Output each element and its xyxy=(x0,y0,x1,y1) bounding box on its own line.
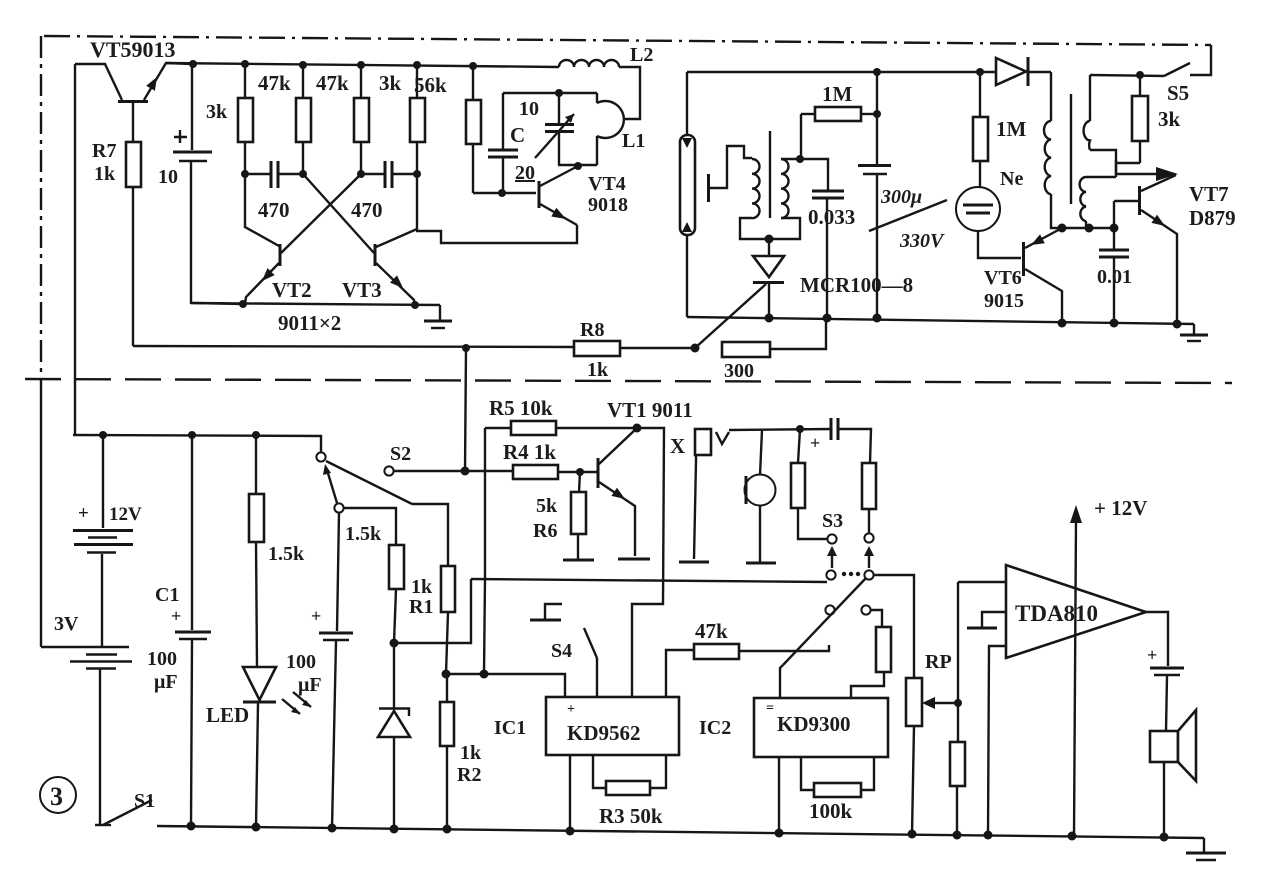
svg-text:R2: R2 xyxy=(457,764,481,786)
svg-text:9011×2: 9011×2 xyxy=(278,311,341,335)
resistor 1.5k (LED) xyxy=(249,435,305,667)
resistor R7 1k xyxy=(92,140,141,346)
microphone xyxy=(745,430,776,562)
svg-text:3k: 3k xyxy=(1158,107,1181,131)
svg-text:3: 3 xyxy=(50,782,63,811)
svg-text:330V: 330V xyxy=(899,230,945,252)
transformer T2 primary xyxy=(1044,72,1062,228)
op-amp TDA810 xyxy=(1006,565,1146,658)
svg-text:47k: 47k xyxy=(695,619,728,643)
svg-text:20: 20 xyxy=(515,162,535,184)
svg-text:RP: RP xyxy=(925,651,952,673)
capacitor 300u 330V xyxy=(858,72,947,318)
svg-text:S2: S2 xyxy=(390,443,411,465)
wire TDA input xyxy=(958,581,1006,583)
resistor R4 1k xyxy=(465,440,597,479)
switch S2 xyxy=(384,443,469,476)
transistor VT5 xyxy=(75,63,193,142)
LED xyxy=(206,667,311,827)
label VT5 9013 xyxy=(90,37,176,62)
ground (TDA pin) xyxy=(967,612,1006,628)
resistor R8 1k xyxy=(574,319,700,381)
transistor VT6 9015 xyxy=(984,228,1062,323)
svg-text:1M: 1M xyxy=(822,82,853,106)
wire secondary top to S5 xyxy=(1090,75,1164,76)
wire IC2 ground pin xyxy=(778,757,780,833)
svg-text:R6: R6 xyxy=(533,520,557,542)
resistor R6 5k xyxy=(533,472,586,559)
svg-text:S5: S5 xyxy=(1167,81,1189,105)
wire bottom rail xyxy=(157,822,1204,842)
transistor VT2 xyxy=(245,174,312,304)
wire VT1 collector to IC1 xyxy=(632,428,664,697)
resistor (S3 right throw) xyxy=(851,610,891,698)
speaker xyxy=(1150,710,1196,837)
svg-text:C1: C1 xyxy=(155,584,179,606)
svg-text:9015: 9015 xyxy=(984,290,1024,312)
wire flash top rail xyxy=(687,68,996,76)
svg-text:47k: 47k xyxy=(258,71,291,95)
resistor R5 10k xyxy=(485,396,637,435)
svg-text:VT2: VT2 xyxy=(272,278,312,302)
resistor (right of mic) xyxy=(838,429,876,533)
svg-text:IC1: IC1 xyxy=(494,717,526,739)
svg-text:+: + xyxy=(78,503,89,524)
svg-text:D879: D879 xyxy=(1189,206,1236,230)
svg-text:1M: 1M xyxy=(996,117,1027,141)
wire bottom section top rail xyxy=(73,64,321,452)
IC1 KD9562 xyxy=(494,697,679,755)
flash tube xyxy=(680,72,695,317)
transistor VT3 xyxy=(342,174,417,305)
svg-text:MCR100—8: MCR100—8 xyxy=(800,273,913,297)
svg-text:10: 10 xyxy=(158,166,178,188)
svg-text:C: C xyxy=(510,123,525,147)
node dots top rail xyxy=(189,60,477,70)
separator dashed line xyxy=(25,379,1232,383)
resistor 56k xyxy=(414,66,481,193)
svg-text:+: + xyxy=(171,606,181,626)
wire left loop xyxy=(74,64,76,435)
svg-text:3V: 3V xyxy=(54,613,79,635)
resistor 47k (first) xyxy=(258,65,311,174)
label circled 3 xyxy=(40,777,76,813)
svg-text:R4 1k: R4 1k xyxy=(503,440,556,464)
svg-text:56k: 56k xyxy=(414,73,447,97)
wire top rail xyxy=(166,63,559,67)
svg-text:R7: R7 xyxy=(92,140,116,162)
capacitor 100uF (second) xyxy=(286,513,353,828)
svg-text:R8: R8 xyxy=(580,319,604,341)
transistor VT7 D879 xyxy=(1114,160,1236,324)
battery 3V xyxy=(41,613,132,824)
svg-text:TDA810: TDA810 xyxy=(1015,601,1098,626)
svg-text:VT3: VT3 xyxy=(342,278,382,302)
label 9011 x2 xyxy=(278,311,341,335)
capacitor C1 100uF xyxy=(147,435,211,826)
switch S1 xyxy=(95,790,155,825)
wire VT3 to VT4 emitter xyxy=(416,225,577,243)
svg-text:3k: 3k xyxy=(379,71,402,95)
inductor L2 xyxy=(559,44,653,119)
wire tank top xyxy=(503,89,597,97)
trigger transformer secondary xyxy=(781,159,800,218)
svg-text:LED: LED xyxy=(206,703,249,727)
wire logic bus y578 xyxy=(471,579,827,582)
svg-text:=: = xyxy=(766,701,774,716)
svg-text:1k: 1k xyxy=(460,742,482,764)
svg-text:+: + xyxy=(567,702,575,717)
transistor VT1 9011 xyxy=(598,398,693,556)
resistor R2 1k xyxy=(440,670,482,830)
IC2 KD9300 xyxy=(699,698,888,757)
capacitor 10u electrolytic xyxy=(158,64,243,304)
resistor 3k (VT7) xyxy=(1116,71,1181,163)
svg-text:R5 10k: R5 10k xyxy=(489,396,553,420)
wire flash bottom rail xyxy=(687,314,1194,329)
resistor 300 xyxy=(722,318,826,382)
frame dash-dot top border xyxy=(44,36,1211,45)
svg-text:S1: S1 xyxy=(134,790,155,812)
resistor (mic load) xyxy=(791,429,827,539)
capacitor C tank fixed xyxy=(488,93,518,193)
capacitor 470 (left) xyxy=(245,161,303,222)
transformer T2 secondary upper xyxy=(1084,75,1116,177)
switch S3 xyxy=(780,510,914,698)
switch S5 xyxy=(1164,63,1190,105)
svg-text:S3: S3 xyxy=(822,510,843,532)
svg-text:0.033: 0.033 xyxy=(808,205,855,229)
wire zener node to logic rail xyxy=(390,579,472,648)
svg-text:300μ: 300μ xyxy=(880,186,922,208)
svg-text:10: 10 xyxy=(519,98,539,120)
ground (R6) xyxy=(563,559,594,562)
svg-text:3k: 3k xyxy=(206,101,228,123)
capacitor variable 10/20 xyxy=(510,93,574,184)
transformer T2 secondary lower xyxy=(1080,177,1116,228)
svg-text:300: 300 xyxy=(724,360,754,382)
svg-text:12V: 12V xyxy=(109,504,142,525)
wire R5 bus to IC1 xyxy=(446,674,565,697)
ground (bottom right) xyxy=(1186,838,1226,860)
svg-text:VT6: VT6 xyxy=(984,267,1022,289)
ground (mic) xyxy=(746,562,776,565)
wire TDA feedback xyxy=(988,646,1006,835)
supply +12V xyxy=(1070,496,1147,836)
trigger transformer primary xyxy=(752,159,759,218)
wire tank bottom xyxy=(558,162,597,170)
capacitor 0.01 xyxy=(1097,228,1132,323)
wire multivibrator emitter rail xyxy=(191,300,440,309)
resistor R3 50k xyxy=(570,755,666,831)
svg-text:+ 12V: + 12V xyxy=(1094,496,1147,520)
svg-text:470: 470 xyxy=(351,198,383,222)
wire R8 to S2 node xyxy=(465,348,466,471)
trigger electrode xyxy=(709,146,753,202)
svg-text:VT59013: VT59013 xyxy=(90,37,176,62)
svg-text:9018: 9018 xyxy=(588,194,628,216)
svg-text:IC2: IC2 xyxy=(699,717,731,739)
resistor 1.5k (second) xyxy=(345,523,404,643)
capacitor output xyxy=(1146,612,1184,731)
svg-text:X: X xyxy=(670,434,685,458)
svg-text:R1: R1 xyxy=(409,596,433,618)
resistor 3k (VT2 collector) xyxy=(206,64,253,174)
svg-text:KD9562: KD9562 xyxy=(567,721,641,745)
switch S2' (charge changeover) xyxy=(316,452,448,566)
SCR MCR100-8 xyxy=(695,239,913,348)
ground (multivibrator) xyxy=(424,305,452,328)
svg-text:+: + xyxy=(1147,645,1157,665)
resistor (RP lower) xyxy=(950,582,965,835)
trigger transformer core xyxy=(769,131,771,218)
svg-text:VT4: VT4 xyxy=(588,173,626,195)
transistor VT4 xyxy=(539,166,628,225)
svg-text:0.01: 0.01 xyxy=(1097,266,1132,288)
ground (X) xyxy=(679,561,709,564)
svg-text:470: 470 xyxy=(258,198,290,222)
resistor R1 1k xyxy=(409,566,455,674)
diode (boost rectifier) xyxy=(996,57,1051,86)
capacitor 470 (right) xyxy=(351,161,417,222)
zener diode xyxy=(378,643,410,829)
svg-text:R3 50k: R3 50k xyxy=(599,804,663,828)
potentiometer RP xyxy=(906,651,958,834)
neon lamp Ne xyxy=(956,168,1023,258)
frame right corner hook xyxy=(1190,45,1211,75)
wire mic bus xyxy=(729,425,831,433)
svg-text:47k: 47k xyxy=(316,71,349,95)
wire R8 row xyxy=(133,344,574,352)
node dots 470 caps xyxy=(241,170,421,178)
frame left vertical wire xyxy=(40,36,42,647)
svg-text:VT1 9011: VT1 9011 xyxy=(607,398,693,422)
svg-text:100k: 100k xyxy=(809,799,853,823)
crystal X xyxy=(670,429,729,559)
svg-text:S4: S4 xyxy=(551,640,572,662)
switch S4 xyxy=(530,604,597,697)
svg-text:5k: 5k xyxy=(536,495,558,517)
resistor 47k (second) xyxy=(316,65,369,174)
wire VT4 base feed xyxy=(473,189,536,197)
svg-text:1.5k: 1.5k xyxy=(345,523,382,545)
svg-text:1k: 1k xyxy=(411,576,433,598)
svg-text:VT7: VT7 xyxy=(1189,182,1229,206)
capacitor 0.033 xyxy=(796,155,855,319)
svg-text:1.5k: 1.5k xyxy=(268,543,305,565)
svg-text:+: + xyxy=(810,433,820,453)
svg-text:L2: L2 xyxy=(630,44,653,66)
wire R5 bus vertical xyxy=(480,428,489,679)
ground (flash section) xyxy=(1180,324,1208,341)
svg-text:Ne: Ne xyxy=(1000,168,1023,190)
capacitor coupling (S3) xyxy=(810,418,838,453)
inductor L1 xyxy=(597,93,645,165)
resistor 3k (VT3 collector) xyxy=(379,65,425,174)
trigger transformer base xyxy=(740,218,800,244)
resistor 1M (SCR gate) xyxy=(801,82,881,159)
svg-text:μF: μF xyxy=(298,674,322,696)
svg-text:μF: μF xyxy=(154,671,178,693)
svg-text:1k: 1k xyxy=(587,359,609,381)
ground (VT1 emitter) xyxy=(618,558,650,561)
svg-text:+: + xyxy=(311,606,321,626)
resistor 100k xyxy=(801,757,874,823)
svg-text:1k: 1k xyxy=(94,163,116,185)
battery 12V xyxy=(73,435,142,646)
resistor 1M (neon) xyxy=(973,72,1027,187)
resistor 47k (IC2 input) xyxy=(666,619,829,697)
wire mid rail (VT6/VT7) xyxy=(1058,224,1119,233)
svg-text:KD9300: KD9300 xyxy=(777,712,851,736)
transformer T2 core xyxy=(1070,94,1072,204)
svg-text:100: 100 xyxy=(286,651,316,673)
wire cross coupling xyxy=(281,174,374,253)
svg-text:L1: L1 xyxy=(622,130,645,152)
svg-text:100: 100 xyxy=(147,648,177,670)
